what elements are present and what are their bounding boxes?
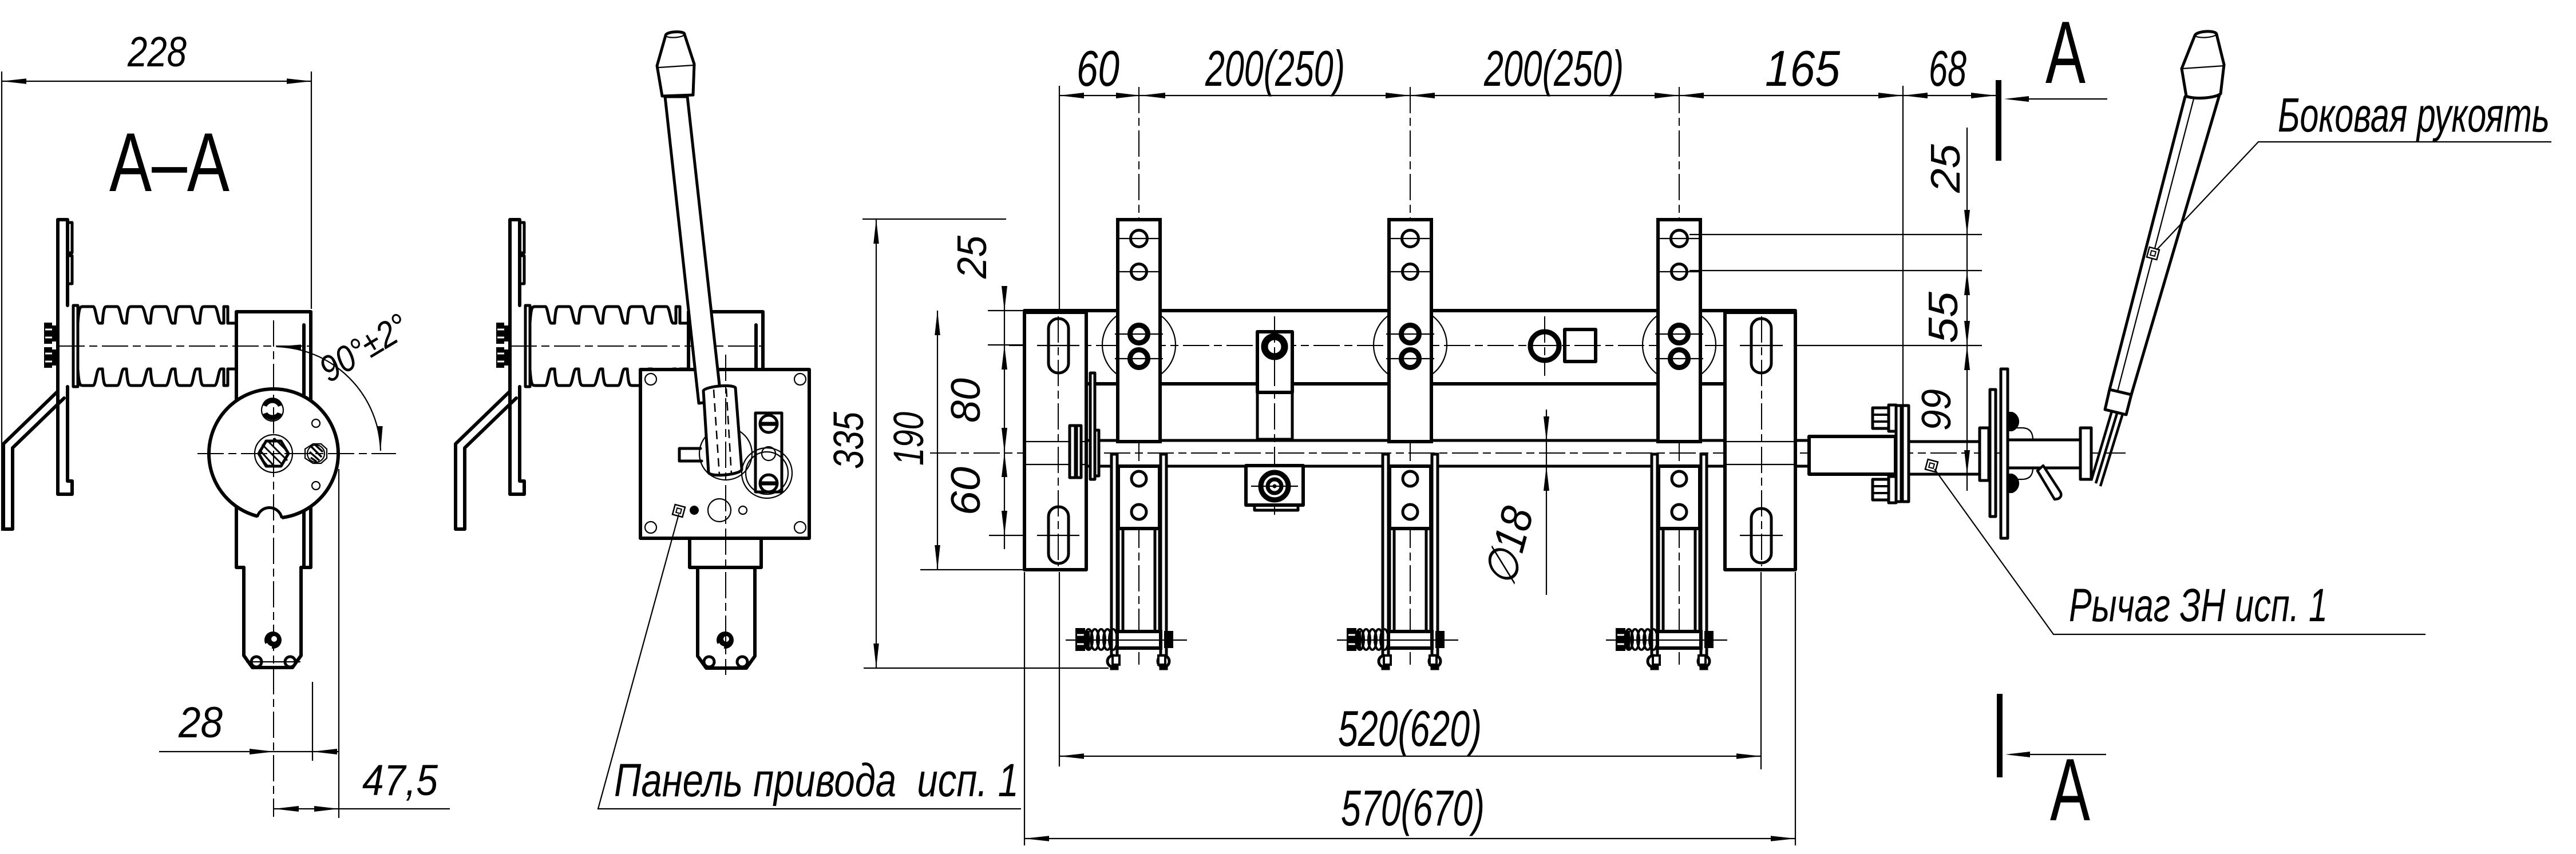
right end plate	[1725, 312, 1795, 570]
svg-text:335: 335	[825, 411, 872, 469]
marker on handle rod	[2147, 247, 2159, 260]
dia18 dim line	[1546, 410, 1547, 595]
left chain arrows	[1002, 286, 1007, 535]
left slot axis marks	[1037, 345, 1079, 535]
insulator bottom sheds	[530, 369, 676, 386]
coupling flange plate 1	[1896, 406, 1901, 502]
insulator axis centerline	[511, 345, 764, 347]
side handle knob	[2182, 31, 2224, 98]
svg-text:55: 55	[1921, 291, 1966, 343]
handle rod	[665, 97, 721, 403]
svg-text:47,5: 47,5	[362, 756, 438, 805]
top dim arrows	[1059, 93, 1996, 98]
left chain ext line y543	[988, 310, 1026, 311]
insulator neck to body	[680, 323, 688, 369]
rod bottom sleeve	[2105, 390, 2131, 415]
svg-text:60: 60	[1077, 40, 1119, 97]
dimension 47,5 extension line	[338, 469, 339, 818]
dimension 335 bottom extension line	[864, 668, 1109, 669]
knob top ellipse	[666, 34, 684, 38]
panel corner hole bottom-right	[794, 522, 806, 533]
plate top tabs	[68, 223, 72, 284]
knob band line	[659, 65, 694, 67]
svg-text:Боковая рукоять: Боковая рукоять	[2278, 88, 2550, 142]
svg-text:520(620): 520(620)	[1338, 700, 1482, 757]
left bearing flange strips	[1070, 426, 1081, 478]
svg-text:Панель привода исп. 1: Панель привода исп. 1	[614, 754, 1019, 807]
dim 570 line	[1024, 838, 1795, 839]
shaft bottom hole left	[704, 657, 714, 667]
crank tube upper flange	[2008, 428, 2033, 440]
left plate slot centerline	[1058, 316, 1059, 566]
panel small dot left	[690, 506, 698, 514]
dia18 arrows	[1544, 416, 1549, 491]
right chain dim line	[1966, 128, 1968, 491]
svg-text:25: 25	[1923, 144, 1969, 193]
disc small hole lower right	[312, 482, 320, 490]
flange block below panel	[690, 538, 761, 567]
lever hub plate 1	[1990, 390, 1996, 517]
right chain ref line y604	[1797, 345, 1982, 346]
insulator neck to body	[228, 323, 236, 369]
svg-text:A: A	[2045, 3, 2086, 102]
dim 520 left ext line	[1059, 572, 1060, 766]
dim 190 bottom ext line	[920, 569, 1024, 570]
crank tube lower flange	[2008, 468, 2033, 479]
dimension 335 line	[876, 219, 877, 668]
rod inner edge line	[2118, 97, 2194, 391]
section arrow bottom	[2005, 752, 2106, 757]
shaft spring pin	[264, 631, 282, 649]
panel corner hole top-right	[794, 374, 806, 385]
top dim extension line at left slot	[1059, 86, 1060, 313]
lever stub lower	[2037, 466, 2061, 499]
svg-text:228: 228	[127, 28, 187, 76]
label leader ground lever	[1934, 469, 2425, 634]
mounting plate (edge view)	[58, 220, 72, 494]
drive panel square	[640, 370, 809, 538]
right chain ref line y473	[1689, 270, 1982, 271]
insulator blade 1	[1066, 87, 1187, 669]
lower shaft	[244, 567, 301, 668]
insulator bottom sheds	[78, 369, 224, 386]
svg-text:99: 99	[1914, 389, 1960, 431]
shaft section after flange	[1909, 442, 1980, 474]
disc vertical centerline	[273, 320, 274, 817]
mid support lower part	[1257, 392, 1292, 439]
mounting plate (edge view)	[510, 220, 524, 494]
insulator left cap	[73, 305, 78, 387]
dimension 335 top extension line	[862, 219, 1006, 220]
insulator right cap	[224, 307, 228, 386]
svg-text:68: 68	[1929, 40, 1966, 97]
insulator blade 2	[1337, 87, 1458, 669]
right shaft boss	[1809, 436, 1896, 474]
main shaft axis	[930, 452, 2126, 454]
right plate slot centerline	[1761, 316, 1762, 566]
mid support centerline	[1274, 316, 1275, 515]
insulator axis centerline	[58, 345, 312, 347]
shaft lower edge	[1073, 465, 1809, 468]
mid block axis marks	[1251, 486, 1298, 487]
svg-text:60: 60	[943, 467, 989, 515]
lever hub plate 2	[2001, 369, 2008, 538]
svg-text:570(670): 570(670)	[1341, 780, 1485, 836]
right slot axis marks	[1740, 345, 1783, 535]
disc set screw top	[262, 398, 283, 421]
vertical centerline of panel	[725, 355, 726, 675]
left plate shaft hidden lines	[1024, 442, 1086, 464]
dimension 190 line	[937, 311, 938, 570]
screw top	[760, 415, 777, 432]
left plate slot lower	[1048, 507, 1069, 563]
top dimension line	[1059, 95, 1996, 96]
plate top tabs	[520, 223, 524, 284]
section line A bottom	[1997, 694, 2003, 777]
shaft spring pin	[717, 631, 734, 649]
leader marker on panel	[672, 505, 685, 517]
frame top edge	[1024, 309, 1795, 312]
right chain arrows	[1964, 210, 1970, 475]
lower shaft	[698, 567, 755, 668]
svg-text:190: 190	[885, 412, 932, 466]
frame bottom front edge	[1086, 382, 1725, 386]
panel small hole right	[739, 506, 747, 514]
shaft bottom hole right	[737, 657, 747, 667]
side handle rod	[2110, 95, 2219, 395]
left chain dim line	[1004, 286, 1005, 549]
mid block target rings	[1261, 472, 1288, 500]
shaft bottom hole right	[285, 657, 295, 667]
mid support ring	[1265, 337, 1285, 357]
left shaft washer	[1095, 430, 1099, 476]
rotation disc	[209, 389, 338, 518]
panel lower circle	[708, 499, 731, 522]
frame hole circle	[1530, 332, 1559, 360]
mid support tab	[1257, 332, 1292, 392]
bolt upper on plate	[44, 323, 58, 344]
section arrow top	[2004, 96, 2107, 102]
crank tube end cap	[2080, 428, 2091, 479]
hub left tab	[679, 448, 702, 461]
frame hole centerline	[1544, 316, 1545, 376]
label leader side handle	[2156, 142, 2551, 250]
disc hex hub hole	[255, 435, 292, 472]
left thin support strip	[1090, 373, 1095, 479]
padlock ring	[742, 448, 792, 498]
disc bottom notch	[257, 507, 282, 532]
right chain ref line y410	[1689, 234, 1982, 235]
left plate slot upper	[1048, 319, 1069, 373]
panel corner hole top-left	[645, 374, 656, 385]
bolt upper on plate	[496, 323, 510, 344]
marker on ground lever shaft	[1925, 459, 1938, 472]
insulator left cap	[525, 305, 530, 387]
left end plate	[1024, 312, 1086, 570]
handle grip sleeve	[703, 386, 742, 475]
dimension 28 line with outside arrows	[159, 749, 339, 754]
square body above panel	[688, 312, 763, 370]
insulator top sheds	[530, 307, 676, 323]
hub boss	[1980, 428, 1989, 480]
hub bolt bottom	[2008, 474, 2019, 493]
insulator right cap	[676, 307, 680, 386]
svg-text:25: 25	[949, 235, 995, 279]
hub bolt top	[2008, 412, 2019, 431]
screw bracket plate	[755, 413, 782, 492]
handle knob	[657, 32, 694, 96]
mid block foot	[1255, 505, 1298, 510]
ring axis circle	[762, 447, 775, 460]
mid lower block	[1246, 466, 1303, 505]
frame square opening	[1565, 329, 1596, 362]
shaft bottom hole left	[251, 657, 262, 667]
handle fork bars	[2091, 407, 2123, 486]
knob top ellipse	[2195, 34, 2217, 38]
disc small hole upper right	[312, 419, 320, 427]
disc pin hole right	[305, 444, 327, 463]
crank tube	[2008, 440, 2080, 468]
label leader line to panel	[598, 514, 1021, 809]
dimension 228 extension line right	[311, 72, 312, 309]
panel corner hole bottom-left	[645, 522, 656, 533]
svg-text:165: 165	[1765, 40, 1841, 97]
dimension 228 line	[2, 81, 311, 82]
top dim extension at coupling	[1902, 86, 1904, 404]
shaft upper edge	[1073, 439, 1809, 442]
insulator top sheds	[78, 307, 224, 323]
svg-text:28: 28	[178, 698, 223, 747]
right plate shaft hidden lines	[1725, 442, 1795, 464]
left chain ext line y603	[988, 344, 1026, 345]
right plate slot upper	[1751, 319, 1771, 373]
dimension 228 extension line left	[1, 72, 2, 531]
dim 570 left ext line	[1024, 572, 1025, 845]
disc horizontal centerline	[197, 453, 396, 454]
svg-text:Рычаг ЗН исп. 1: Рычаг ЗН исп. 1	[2069, 579, 2328, 631]
flange bolt bottom	[1873, 476, 1896, 503]
sleeve inner hidden lines	[714, 388, 731, 475]
coupling flange plate 2	[1902, 406, 1909, 502]
handle hub disc	[699, 427, 752, 480]
dimension 47,5 line	[274, 808, 450, 809]
screw bottom	[760, 475, 777, 492]
right plate slot lower	[1751, 509, 1771, 563]
dim 520 line	[1059, 756, 1761, 757]
bent bracket	[456, 391, 516, 529]
svg-text:200(250): 200(250)	[1205, 40, 1345, 97]
shaft holes axis line	[246, 661, 300, 662]
left chain ext line y936	[989, 535, 1024, 536]
bolt lower on plate	[44, 347, 58, 368]
bolt lower on plate	[496, 347, 510, 368]
svg-text:A–A: A–A	[109, 116, 229, 209]
main horizontal axis upper (insulators)	[1009, 345, 1982, 346]
svg-text:A: A	[2050, 740, 2090, 839]
dim 520 right ext line	[1760, 572, 1762, 769]
section line A top	[1996, 80, 2001, 161]
angle arc 90 deg	[276, 347, 381, 451]
dim 570 right ext line	[1795, 572, 1796, 845]
svg-text:80: 80	[943, 378, 989, 423]
dimension 28 extension line	[312, 682, 313, 761]
knob band line	[2182, 66, 2224, 69]
insulator blade 3	[1606, 87, 1727, 669]
bent bracket	[3, 391, 64, 529]
svg-text:200(250): 200(250)	[1483, 40, 1624, 97]
square body	[236, 312, 311, 567]
flange bolt top	[1873, 405, 1896, 431]
